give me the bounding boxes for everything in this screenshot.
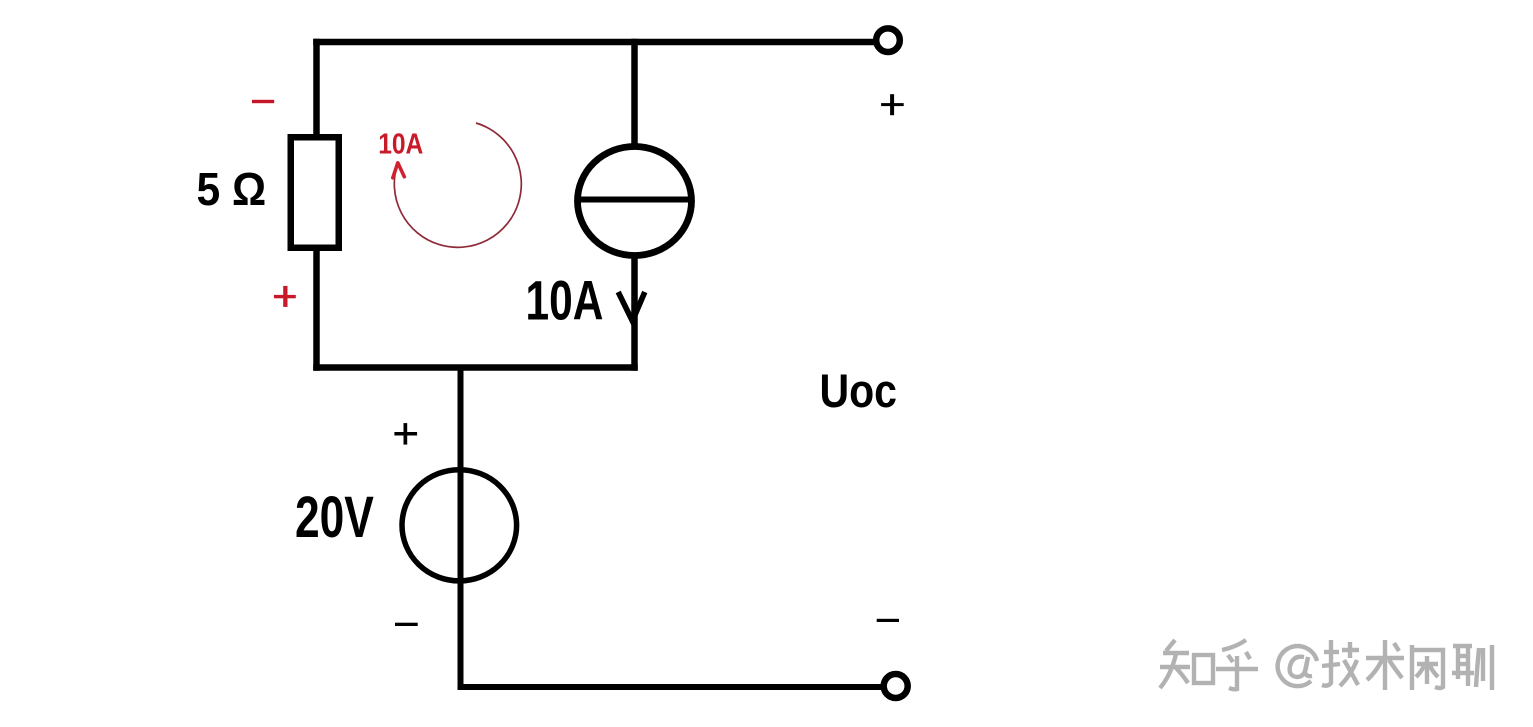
voltage source circle 20V (402, 470, 517, 581)
current source bar (575, 197, 694, 203)
svg-text:5 Ω: 5 Ω (197, 164, 267, 215)
wire: middle vertical upper (top wire to current source) (631, 39, 638, 149)
red polarity minus above resistor (252, 100, 274, 103)
char ji (1322, 640, 1331, 686)
plus sign at output terminal (881, 94, 904, 115)
wire: voltage source branch vertical (through circle to bottom wire) (458, 365, 464, 691)
black plus above 20V source (394, 423, 417, 445)
wire: bottom horizontal to - terminal (458, 684, 882, 690)
svg-text:10A: 10A (378, 128, 423, 160)
at sign (1278, 646, 1317, 686)
black minus below 20V source (395, 623, 418, 626)
open terminal circle top right (876, 28, 900, 52)
char shu (1383, 640, 1387, 690)
wire: middle vertical lower (current source to bottom inner wire) (631, 253, 638, 371)
svg-text:Uoc: Uoc (820, 365, 898, 417)
red polarity plus below resistor (274, 286, 296, 307)
current source circle (578, 147, 692, 256)
char zhi (1166, 640, 1175, 651)
open terminal circle bottom right (884, 674, 908, 698)
svg-text:10A: 10A (526, 270, 604, 332)
char hu (1222, 640, 1246, 650)
minus sign at output terminal (877, 619, 899, 622)
wire: left vertical lower (resistor to bottom inner wire) (313, 246, 320, 371)
wire: inner loop bottom horizontal (313, 364, 638, 371)
char liao (1453, 644, 1472, 648)
char xian (1410, 645, 1414, 690)
current direction chevron arrow (618, 292, 645, 321)
watermark zhihu (1160, 640, 1492, 690)
red mesh current loop arc (394, 123, 521, 247)
svg-text:20V: 20V (295, 484, 374, 549)
wire: left vertical upper (top wire to resistor) (313, 39, 320, 139)
red loop arrowhead (393, 163, 405, 178)
wire: top horizontal from left branch to + terminal (313, 39, 874, 46)
resistor R 5 ohm body (291, 137, 339, 248)
